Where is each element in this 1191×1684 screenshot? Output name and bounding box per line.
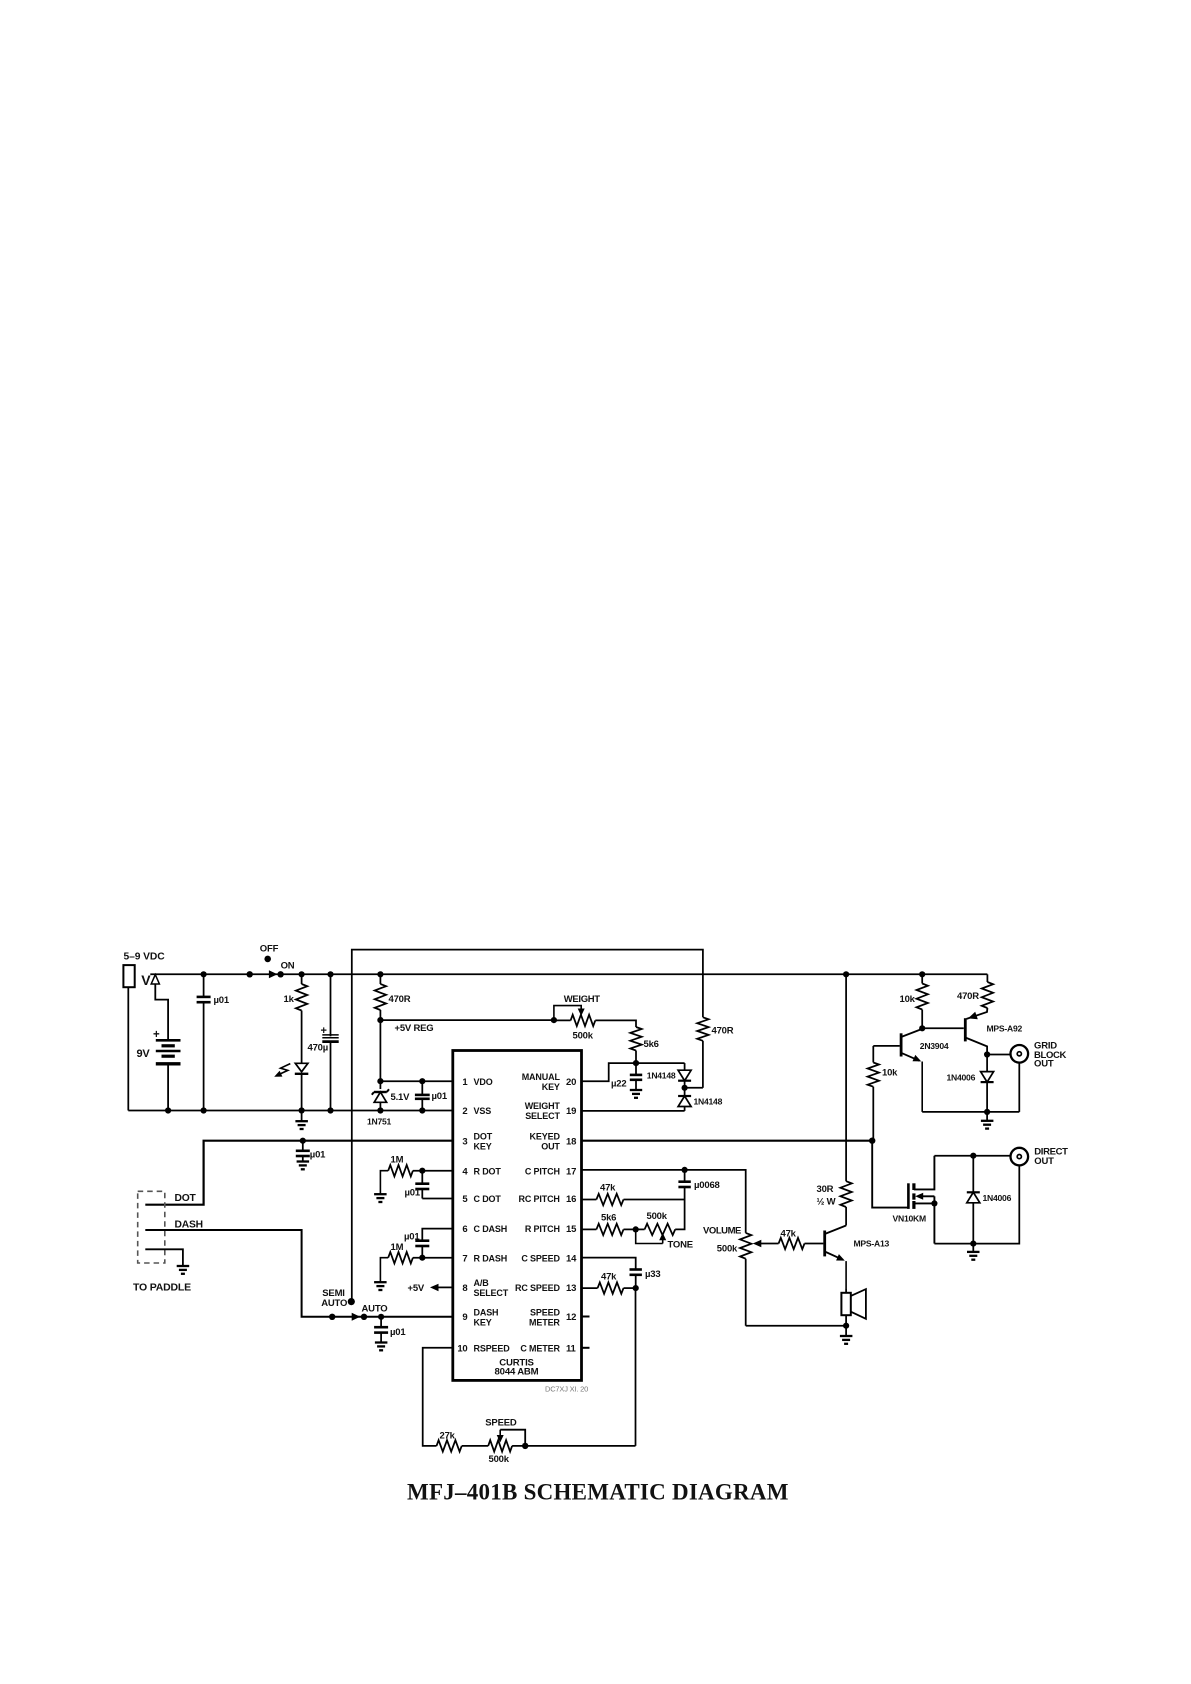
ground below C5	[297, 1160, 310, 1162]
svg-text:9V: 9V	[137, 1048, 151, 1060]
svg-text:1N4148: 1N4148	[694, 1097, 723, 1107]
svg-text:47k: 47k	[781, 1228, 797, 1239]
svg-text:OUT: OUT	[1034, 1156, 1054, 1167]
wire diode junction link	[685, 1087, 703, 1089]
svg-text:R DASH: R DASH	[474, 1253, 508, 1263]
svg-text:DOT: DOT	[474, 1132, 493, 1142]
svg-text:500k: 500k	[647, 1211, 668, 1222]
svg-text:OUT: OUT	[1034, 1058, 1054, 1069]
potentiometer WEIGHT 500k	[554, 1019, 571, 1021]
svg-text:R DOT: R DOT	[474, 1166, 502, 1176]
node 2N3904 collector	[919, 1025, 925, 1031]
svg-text:2: 2	[462, 1106, 467, 1117]
node +5V REG	[377, 1017, 383, 1023]
svg-text:µ33: µ33	[645, 1269, 660, 1280]
switch S1 ON/OFF arm	[269, 970, 278, 978]
svg-text:RC SPEED: RC SPEED	[515, 1283, 560, 1293]
node battery bottom	[165, 1107, 171, 1113]
ground below speaker	[845, 1326, 847, 1336]
ground below R3	[374, 1193, 387, 1195]
connector paddle dashed box	[138, 1191, 165, 1263]
svg-text:10k: 10k	[900, 994, 916, 1005]
node tone wiper tap	[633, 1226, 639, 1232]
svg-text:5.1V: 5.1V	[391, 1092, 411, 1103]
wire +5V REG rail	[380, 1019, 554, 1021]
wire pin5 C DOT	[422, 1198, 453, 1200]
wire pin18 to gate	[872, 1141, 907, 1208]
node mosfet source	[931, 1200, 937, 1206]
ground paddle	[177, 1265, 190, 1267]
svg-text:WEIGHT: WEIGHT	[525, 1101, 561, 1111]
wire semi-auto net	[352, 950, 703, 1302]
svg-text:47k: 47k	[600, 1183, 616, 1194]
svg-text:5k6: 5k6	[601, 1213, 616, 1224]
capacitor C10 u33	[630, 1268, 642, 1271]
svg-text:12: 12	[566, 1312, 576, 1323]
resistor R3 1M	[388, 1165, 413, 1176]
svg-text:VSS: VSS	[474, 1106, 492, 1116]
ground below C4	[630, 1089, 642, 1091]
svg-text:V: V	[141, 972, 151, 988]
node R13 top	[919, 971, 925, 977]
svg-text:RSPEED: RSPEED	[474, 1343, 511, 1353]
node grid rail	[984, 1109, 990, 1115]
svg-text:KEY: KEY	[474, 1142, 492, 1152]
capacitor C1 .01	[203, 974, 205, 997]
svg-text:+5V REG: +5V REG	[395, 1023, 434, 1034]
resistor R11 47k	[779, 1238, 805, 1249]
svg-text:µ01: µ01	[310, 1149, 326, 1160]
wire pin9 DASH KEY	[332, 1316, 453, 1318]
node Q2 collector out	[984, 1051, 990, 1057]
svg-text:20: 20	[566, 1077, 576, 1088]
wire battery to bottom rail	[167, 1064, 169, 1111]
svg-text:WEIGHT: WEIGHT	[564, 994, 600, 1005]
wire pin11 stub	[582, 1347, 590, 1349]
resistor R15 10k	[872, 1046, 874, 1063]
svg-text:500k: 500k	[489, 1454, 510, 1465]
wire pin14 C SPEED	[582, 1258, 636, 1270]
node pin9 cap junction	[378, 1314, 384, 1320]
svg-text:µ01: µ01	[405, 1188, 421, 1199]
node R2 top	[377, 971, 383, 977]
node LED bottom	[299, 1107, 305, 1113]
node C1 top	[201, 971, 207, 977]
svg-text:C DASH: C DASH	[474, 1224, 508, 1234]
MOSFET Q4 VN10KM	[907, 1183, 910, 1209]
wire zener branch	[379, 1020, 381, 1089]
diode D2 1N4148	[684, 1081, 686, 1096]
svg-text:5k6: 5k6	[644, 1039, 659, 1050]
diode D6 1N4006	[986, 1055, 988, 1072]
svg-text:METER: METER	[529, 1317, 560, 1327]
capacitor C6 .01	[380, 1317, 382, 1327]
zener D4 1N751 5.1V	[374, 1091, 387, 1093]
ground below C6	[375, 1341, 388, 1343]
svg-text:OFF: OFF	[260, 944, 279, 955]
svg-text:47k: 47k	[601, 1271, 617, 1282]
wire direct out top rail	[934, 1155, 1011, 1157]
resistor R7 27k	[437, 1440, 462, 1451]
resistor R4 1M	[388, 1252, 413, 1263]
node auto switch common	[329, 1314, 335, 1320]
resistor R5 5k6	[630, 1027, 641, 1051]
transistor Q1 2N3904	[900, 1033, 903, 1056]
ground grid rail	[986, 1112, 988, 1121]
resistor R9 5k6	[582, 1228, 597, 1230]
potentiometer VOLUME 500k	[745, 1232, 747, 1234]
svg-text:19: 19	[566, 1106, 576, 1117]
svg-text:VN10KM: VN10KM	[893, 1214, 926, 1224]
resistor R8 47k	[582, 1199, 597, 1201]
svg-text:500k: 500k	[573, 1031, 594, 1042]
svg-text:µ01: µ01	[390, 1327, 406, 1338]
node C2 top	[327, 971, 333, 977]
node C1 bottom	[201, 1107, 207, 1113]
switch S2 arm	[352, 1313, 361, 1321]
svg-text:SPEED: SPEED	[485, 1418, 517, 1429]
node R1 top	[299, 971, 305, 977]
svg-text:C METER: C METER	[520, 1343, 560, 1353]
svg-text:13: 13	[566, 1283, 576, 1294]
wire volume wiper and R11	[753, 1240, 762, 1247]
capacitor C7 .01	[421, 1171, 423, 1184]
wire V to battery top	[155, 984, 168, 1040]
node pin7 junction	[419, 1255, 425, 1261]
wire pin19 rail	[582, 1110, 685, 1112]
svg-text:SPEED: SPEED	[530, 1307, 560, 1317]
svg-text:6: 6	[462, 1224, 467, 1235]
potentiometer TONE 500k	[636, 1228, 645, 1230]
capacitor C9 u0068	[684, 1170, 686, 1182]
battery BT1 9V	[156, 1039, 181, 1042]
node OFF contact	[264, 956, 271, 963]
potentiometer SPEED 500k	[488, 1440, 512, 1451]
connector J3 GRID BLOCK OUT	[1011, 1045, 1029, 1063]
wire speed wiper	[500, 1430, 525, 1446]
diode D5 1N4006	[972, 1156, 974, 1193]
svg-text:1N751: 1N751	[367, 1117, 392, 1127]
resistor R2 470R	[379, 974, 381, 984]
resistor R10 47k	[582, 1287, 598, 1289]
svg-text:TONE: TONE	[668, 1240, 693, 1251]
svg-text:R PITCH: R PITCH	[525, 1224, 560, 1234]
resistor R12 30R	[840, 1181, 851, 1207]
svg-text:18: 18	[566, 1136, 576, 1147]
resistor R14 470R	[986, 974, 988, 982]
wire volume bottom rail	[746, 1325, 846, 1327]
svg-text:SELECT: SELECT	[525, 1111, 560, 1121]
svg-text:VOLUME: VOLUME	[703, 1225, 741, 1236]
svg-text:16: 16	[566, 1194, 576, 1205]
wire pin1 VDO	[380, 1080, 452, 1082]
wire from power jack down left side	[127, 987, 129, 1110]
svg-text:AUTO: AUTO	[321, 1298, 347, 1309]
LED D3	[295, 1063, 308, 1072]
svg-text:MFJ–401B SCHEMATIC DIAGRAM: MFJ–401B SCHEMATIC DIAGRAM	[407, 1480, 789, 1505]
wire grid BNC down	[1018, 1063, 1020, 1112]
svg-text:1N4006: 1N4006	[983, 1193, 1012, 1203]
svg-text:DASH: DASH	[474, 1307, 499, 1317]
node pin4 junction	[419, 1168, 425, 1174]
node C2 bottom	[327, 1107, 333, 1113]
ground below R4	[374, 1281, 387, 1283]
wire pin3 DOT KEY	[145, 1141, 453, 1205]
wire node rail to pin20	[582, 1063, 685, 1081]
node AUTO contact	[361, 1314, 367, 1320]
wire pin18 KEYED OUT	[582, 1140, 873, 1142]
svg-text:MANUAL: MANUAL	[522, 1072, 561, 1082]
node weight wiper tap	[551, 1017, 557, 1023]
node switch common	[247, 971, 253, 977]
svg-text:470R: 470R	[389, 994, 411, 1005]
svg-text:470R: 470R	[712, 1026, 734, 1037]
connector J2 DIRECT OUT	[1011, 1148, 1029, 1166]
svg-text:C DOT: C DOT	[474, 1194, 502, 1204]
wire pin12 stub	[582, 1316, 590, 1318]
svg-text:1M: 1M	[391, 1242, 404, 1253]
svg-text:1k: 1k	[284, 994, 295, 1005]
transistor Q3 MPS-A13	[823, 1231, 826, 1257]
node zener bottom	[377, 1107, 383, 1113]
node pin17 cap junction	[682, 1167, 688, 1173]
svg-text:7: 7	[462, 1253, 467, 1264]
node C3 top	[419, 1078, 425, 1084]
ground direct out	[972, 1244, 974, 1252]
node C3 bottom	[419, 1107, 425, 1113]
wire 30R branch	[845, 974, 847, 1181]
node 5k6 bottom	[633, 1060, 639, 1066]
svg-text:A/B: A/B	[474, 1278, 490, 1288]
svg-text:DC7XJ XI. 20: DC7XJ XI. 20	[545, 1385, 588, 1394]
resistor R13 10k	[921, 974, 923, 983]
svg-text:15: 15	[566, 1224, 577, 1235]
svg-text:OUT: OUT	[541, 1142, 560, 1152]
svg-text:11: 11	[566, 1343, 577, 1354]
speaker SP1	[845, 1288, 847, 1293]
capacitor C8 .01	[415, 1239, 429, 1242]
wire grid emitter rail	[922, 1111, 1019, 1113]
svg-text:10: 10	[457, 1343, 467, 1354]
svg-text:DASH: DASH	[175, 1220, 203, 1231]
svg-text:AUTO: AUTO	[362, 1303, 388, 1314]
wire pin10 RSPEED	[423, 1348, 453, 1446]
wire bottom VSS rail	[128, 1110, 453, 1112]
svg-text:+5V: +5V	[408, 1283, 425, 1294]
wire DASH to auto switch	[145, 1230, 332, 1317]
node pin18 end	[869, 1138, 875, 1144]
capacitor C2 470u	[330, 974, 332, 1036]
svg-text:KEY: KEY	[474, 1317, 492, 1327]
svg-text:KEYED: KEYED	[530, 1132, 561, 1142]
wire pin7 R DASH	[413, 1257, 453, 1259]
node direct diode top	[970, 1153, 976, 1159]
node speed wiper tap	[522, 1443, 528, 1449]
svg-text:µ0068: µ0068	[694, 1180, 720, 1191]
svg-text:µ22: µ22	[611, 1079, 626, 1090]
node 30R top	[843, 971, 849, 977]
svg-text:1N4148: 1N4148	[647, 1070, 676, 1080]
wire grid out stub	[987, 1054, 1011, 1056]
svg-text:ON: ON	[281, 960, 295, 971]
svg-text:µ01: µ01	[404, 1232, 420, 1243]
svg-text:RC PITCH: RC PITCH	[518, 1194, 559, 1204]
svg-text:470R: 470R	[957, 991, 979, 1002]
wire paddle ground	[145, 1249, 183, 1266]
wire pin4 R DOT	[413, 1170, 453, 1172]
wire weight wiper	[554, 1006, 581, 1021]
svg-text:500k: 500k	[717, 1244, 738, 1255]
wire pin6 C DASH	[422, 1229, 453, 1241]
connector J1 power jack	[123, 965, 134, 987]
node pin13 junction	[633, 1285, 639, 1291]
svg-text:SELECT: SELECT	[474, 1288, 509, 1298]
svg-text:µ01: µ01	[432, 1091, 448, 1102]
svg-text:8044 ABM: 8044 ABM	[495, 1366, 539, 1377]
node speaker bottom	[843, 1323, 849, 1329]
svg-text:1N4006: 1N4006	[947, 1072, 976, 1082]
svg-text:½ W: ½ W	[817, 1197, 836, 1208]
svg-text:1M: 1M	[391, 1155, 404, 1166]
svg-text:8: 8	[462, 1283, 467, 1294]
capacitor C3 .01	[421, 1081, 423, 1095]
svg-text:C SPEED: C SPEED	[521, 1253, 560, 1263]
wire LED to rail	[301, 1074, 303, 1111]
node pin1 junction	[377, 1078, 383, 1084]
wire speed rail up to pin13 node	[635, 1288, 637, 1446]
svg-text:VDO: VDO	[474, 1077, 493, 1087]
resistor R1 1k	[301, 974, 303, 984]
svg-text:TO PADDLE: TO PADDLE	[133, 1282, 191, 1294]
node ON contact	[277, 971, 283, 977]
wire pin8 A/B select	[437, 1286, 453, 1288]
svg-text:9: 9	[462, 1312, 467, 1323]
svg-text:3: 3	[462, 1136, 467, 1147]
wire top power rail	[150, 973, 987, 975]
svg-text:27k: 27k	[440, 1430, 456, 1441]
ground below LED node	[301, 1111, 303, 1122]
svg-text:MPS-A92: MPS-A92	[987, 1023, 1023, 1033]
svg-text:17: 17	[566, 1166, 576, 1177]
svg-text:µ01: µ01	[214, 995, 230, 1006]
capacitor C5 .01	[302, 1141, 304, 1151]
svg-text:KEY: KEY	[542, 1082, 560, 1092]
svg-text:5–9 VDC: 5–9 VDC	[124, 952, 166, 963]
IC U1 CURTIS 8044 ABM box	[453, 1051, 582, 1381]
wire direct ground rail	[934, 1165, 1019, 1244]
capacitor C4 u22	[635, 1063, 637, 1075]
wire base link	[922, 1027, 964, 1029]
node between diodes	[682, 1085, 688, 1091]
svg-text:30R: 30R	[817, 1184, 834, 1195]
svg-text:470µ: 470µ	[308, 1043, 329, 1054]
wire tone wiper	[636, 1229, 663, 1243]
svg-text:14: 14	[566, 1253, 577, 1264]
svg-text:2N3904: 2N3904	[920, 1041, 949, 1051]
wire pin17 C PITCH	[582, 1170, 746, 1233]
svg-text:MPS-A13: MPS-A13	[854, 1238, 890, 1248]
svg-text:C PITCH: C PITCH	[525, 1166, 560, 1176]
node direct ground rail	[970, 1241, 976, 1247]
transistor Q2 MPS-A92	[964, 1018, 967, 1041]
node SEMI AUTO contact	[348, 1298, 355, 1305]
resistor R6 470R	[697, 1017, 708, 1041]
svg-text:10k: 10k	[882, 1068, 898, 1079]
svg-text:DOT: DOT	[175, 1193, 197, 1204]
node pin3 cap junction	[300, 1138, 306, 1144]
diode D1 1N4148	[684, 1063, 686, 1070]
